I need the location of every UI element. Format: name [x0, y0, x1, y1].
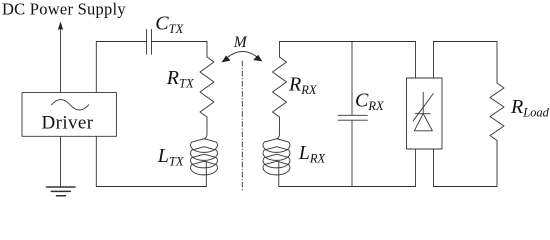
wire top rail right segment	[152, 41, 208, 43]
wire TX top to resistor	[206, 42, 208, 58]
wire top rail left segment	[96, 41, 146, 43]
svg-text:RTX: RTX	[166, 67, 195, 91]
driver box	[22, 93, 116, 137]
label RTX	[166, 67, 195, 91]
wire load bottom rail	[434, 186, 498, 188]
svg-text:CRX: CRX	[355, 90, 385, 114]
label LRX	[298, 142, 327, 166]
label Driver	[42, 113, 94, 134]
dc supply arrow	[58, 22, 63, 93]
svg-text:LTX: LTX	[157, 145, 185, 169]
wire TX bottom rail	[96, 136, 206, 186]
capacitor CTX	[147, 29, 152, 54]
inductor LTX	[191, 134, 218, 187]
driver sine symbol	[52, 100, 89, 110]
svg-text:CTX: CTX	[155, 13, 184, 37]
coupling axis dash-dot line	[241, 61, 243, 192]
label RRX	[288, 74, 318, 98]
label DC Power Supply	[2, 0, 126, 19]
label M	[233, 34, 248, 51]
svg-text:DC Power Supply: DC Power Supply	[2, 0, 126, 19]
wire TX resistor to inductor	[206, 117, 208, 134]
svg-text:Driver: Driver	[42, 113, 94, 134]
wire driver top to rail	[95, 42, 97, 93]
label RLoad	[510, 96, 550, 120]
wire load top to resistor	[496, 42, 498, 84]
rectifier diode symbol	[413, 92, 433, 131]
wire CRX top	[351, 42, 353, 116]
resistor RLoad	[490, 83, 504, 141]
inductor LRX	[263, 134, 290, 187]
capacitor CRX	[338, 115, 367, 120]
label LTX	[157, 145, 185, 169]
svg-text:M: M	[233, 34, 248, 51]
svg-text:RLoad: RLoad	[510, 96, 550, 120]
wire rectifier right top	[433, 42, 435, 79]
label CTX	[155, 13, 184, 37]
wire rectifier right bottom	[433, 149, 435, 187]
label CRX	[355, 90, 385, 114]
resistor RTX	[200, 57, 214, 117]
svg-text:RRX: RRX	[288, 74, 318, 98]
wire CRX bottom	[351, 120, 353, 186]
wire rectifier left top	[415, 42, 417, 79]
wire RX top rail	[280, 41, 416, 43]
wire rectifier left bottom	[415, 149, 417, 187]
resistor RRX	[273, 57, 287, 117]
ground	[47, 187, 76, 196]
svg-text:LRX: LRX	[298, 142, 327, 166]
wire RX bottom rail	[279, 186, 416, 188]
wire driver to ground	[60, 136, 62, 187]
wire RX top to resistor	[279, 42, 281, 58]
mutual coupling arrow	[222, 51, 263, 62]
wire load resistor to bottom	[496, 141, 498, 187]
wire RX resistor to inductor	[279, 117, 281, 134]
rectifier box	[407, 78, 443, 149]
wire load top rail	[434, 41, 498, 43]
